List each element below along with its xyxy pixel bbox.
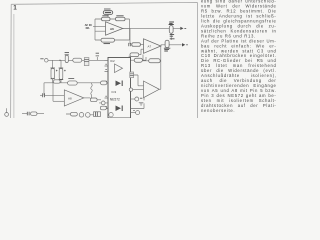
svg-text:A7: A7 bbox=[148, 45, 152, 49]
svg-text:IC2: IC2 bbox=[110, 59, 115, 63]
svg-text:IC3: IC3 bbox=[112, 90, 117, 94]
svg-text:NE572: NE572 bbox=[110, 98, 120, 102]
svg-text:R/L: R/L bbox=[86, 26, 91, 30]
svg-text:A6: A6 bbox=[110, 27, 114, 31]
svg-text:1: 1 bbox=[13, 4, 17, 11]
svg-text:A8: A8 bbox=[68, 97, 72, 101]
